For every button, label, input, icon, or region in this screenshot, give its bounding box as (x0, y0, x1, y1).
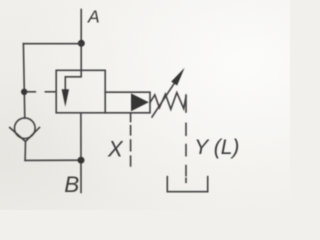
svg-text:A: A (87, 7, 100, 27)
drain port Y dashed line (185, 123, 187, 135)
wire left vertical lower (check valve to bottom) (24, 142, 26, 161)
pilot line dashed (tap to valve body) (27, 91, 36, 93)
pilot stage box (105, 92, 150, 113)
node A junction dot (78, 40, 85, 47)
wire top horizontal (A node to left branch) (23, 43, 81, 45)
spring (zigzag) (150, 93, 186, 110)
pilot port X dashed line (130, 113, 132, 122)
check valve V1 seat (10, 128, 40, 142)
wire A vertical (port A to valve top) (80, 10, 82, 71)
node B junction dot (78, 157, 85, 164)
valve internal flow arrow (65, 70, 81, 90)
wire left vertical upper (to check valve) (23, 44, 24, 118)
tank symbol (167, 177, 207, 192)
wire valve bottom to port B (80, 113, 82, 193)
pilot actuation triangle (filled) (131, 93, 149, 111)
wire bottom horizontal (left branch to B node) (25, 159, 81, 161)
valve body square (56, 70, 105, 113)
adjustability arrow shaft (152, 84, 174, 117)
svg-text:Y (L): Y (L) (194, 136, 239, 159)
svg-text:B: B (64, 172, 79, 197)
svg-text:X: X (107, 136, 124, 161)
adjustability arrow head (171, 68, 184, 86)
node pilot tap junction dot (21, 89, 27, 95)
check valve V1 circle (14, 118, 35, 139)
spring end plate bar (185, 95, 187, 112)
